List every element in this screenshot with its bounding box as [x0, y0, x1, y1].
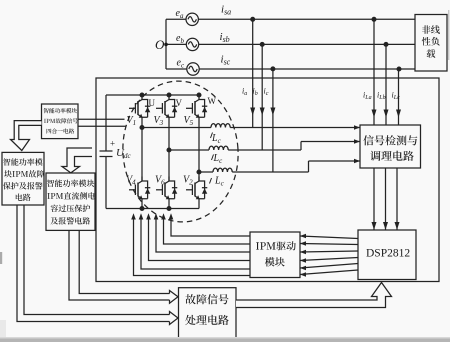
- junction on line c at load-current tap: [397, 67, 401, 71]
- DC overvoltage protection box (box3): [46, 173, 95, 230]
- wire ic tap down to phase-c APF wire: [272, 69, 274, 172]
- wire phase c step up: [308, 161, 310, 172]
- junction top rail leg1: [140, 93, 144, 97]
- wire iLb tap down to signal box: [385, 44, 387, 125]
- junction bottom rail leg1: [140, 207, 144, 211]
- label: IPM故障信号: [44, 119, 46, 123]
- svg-text:ec: ec: [177, 58, 185, 70]
- svg-text:Lc: Lc: [214, 176, 225, 188]
- svg-text:W: W: [208, 96, 217, 106]
- svg-text:V2: V2: [183, 175, 193, 187]
- hollow arrow fault box to DSP: [236, 283, 392, 308]
- svg-text:V1: V1: [127, 115, 137, 127]
- label: 四合一电路: [47, 129, 52, 134]
- wire ia tap down to phase-a APF wire: [252, 19, 254, 127]
- wire gate drive 1 (leftmost): [134, 216, 251, 276]
- signal detection box: [360, 125, 421, 168]
- wire gate drive 4: [156, 216, 250, 252]
- fault signal processing box: [179, 288, 237, 338]
- svg-text:iLa: iLa: [363, 91, 372, 102]
- capacitor Udc plates: [100, 150, 113, 152]
- label: 模块: [265, 257, 275, 266]
- wire DSP to IPM drive pwm2: [300, 244, 358, 245]
- node O (neutral bus): [165, 19, 167, 69]
- svg-text:DSP2812: DSP2812: [366, 248, 410, 260]
- hollow arrowhead box3 lines to fault box: [170, 291, 179, 304]
- scan artifacts: bottom gray band: [0, 339, 450, 342]
- wire DSP to IPM drive pwm1: [300, 236, 358, 239]
- transistor V1: [129, 95, 150, 118]
- label: 保护及报警: [3, 182, 11, 189]
- svg-text:iLb: iLb: [377, 91, 386, 102]
- wire signal box output a to DSP: [373, 168, 375, 230]
- label: 处理电路: [185, 315, 195, 325]
- label: 性负: [422, 37, 431, 46]
- wire phase b: leg2 to inductor: [169, 149, 209, 151]
- wire gate drive 3: [149, 216, 251, 261]
- wire leg3 mid: [198, 117, 200, 181]
- inductor Lc phase c: [213, 168, 232, 172]
- wire fault bus from IPM to box1 (lower): [78, 125, 127, 127]
- svg-text:ic: ic: [264, 87, 269, 98]
- DC bus bottom rail: [106, 208, 199, 210]
- wire line c (isc) to load: [199, 68, 415, 70]
- wire box3 fault line 1: [69, 230, 170, 300]
- svg-text:U: U: [149, 98, 156, 108]
- label: 电路: [16, 194, 23, 201]
- transistor V6: [156, 177, 177, 200]
- label: 调理电路: [370, 151, 380, 161]
- junction phase node c: [197, 170, 201, 174]
- hollow arrowhead box2 lines to fault box: [170, 312, 179, 325]
- label: 智能功率模块: [47, 180, 54, 187]
- svg-text:Lc: Lc: [211, 133, 222, 145]
- junction on line a at APF tap: [251, 17, 255, 21]
- svg-text:ea: ea: [176, 8, 184, 20]
- svg-text:Lc: Lc: [213, 153, 224, 165]
- IPM drive module box: [250, 232, 300, 278]
- junction top rail leg3: [197, 93, 201, 97]
- wire phase b step up: [300, 142, 302, 151]
- transistor V5: [186, 95, 207, 118]
- transistor V4: [129, 177, 150, 200]
- wire DSP to IPM drive pwm6: [300, 270, 358, 275]
- wire phase b from bus to source eb: [166, 43, 186, 45]
- label: 块IPM故障: [4, 170, 12, 177]
- wire phase c: inductor to step: [232, 171, 308, 173]
- label: 信号检测与: [363, 135, 373, 145]
- svg-text:V: V: [176, 98, 183, 108]
- wire ib tap down to phase-b APF wire: [261, 44, 263, 150]
- svg-text:+: +: [110, 139, 115, 149]
- svg-text:V3: V3: [154, 115, 164, 127]
- wire DSP to IPM drive pwm4: [300, 258, 358, 261]
- source eb: [186, 38, 198, 50]
- DC bus left vertical upper: [105, 95, 107, 151]
- svg-text:isb: isb: [220, 31, 230, 44]
- label: 及报警电路: [51, 217, 59, 224]
- svg-text:isa: isa: [221, 4, 231, 17]
- fault box 1 (four-in-one): [42, 104, 79, 139]
- wire phase a from bus to source ea: [166, 18, 186, 20]
- DC bus left vertical lower: [105, 157, 107, 209]
- transistor V3: [156, 95, 177, 118]
- transistor V2: [186, 177, 207, 200]
- svg-text:V5: V5: [184, 115, 194, 127]
- source ec: [187, 63, 199, 75]
- wire phase b: inductor to step: [228, 149, 301, 151]
- IPM protection box (box2): [2, 152, 44, 205]
- lead tick Lc c: [210, 178, 212, 184]
- wire DSP to IPM drive pwm5: [300, 264, 358, 269]
- wire signal box output c to DSP: [396, 168, 398, 230]
- wire gate drive 6 (rightmost): [171, 216, 250, 236]
- svg-text:eb: eb: [176, 33, 184, 45]
- inductor Lc phase a: [211, 124, 230, 128]
- source ea: [186, 13, 198, 25]
- junction on line c at APF tap: [271, 67, 275, 71]
- label: 智能功率模块: [44, 108, 49, 113]
- wire leg2 mid: [168, 117, 170, 181]
- label: 载: [427, 49, 436, 58]
- APF enclosure border: [96, 78, 439, 282]
- wire DSP to IPM drive pwm3: [300, 251, 358, 252]
- wire phase c: leg3 to inductor: [199, 171, 213, 173]
- svg-text:O: O: [155, 37, 165, 52]
- junction bottom rail leg2: [167, 207, 171, 211]
- svg-text:V4: V4: [126, 175, 136, 187]
- nonlinear load box: [415, 15, 447, 72]
- junction at O: [164, 43, 168, 47]
- wire gate drive 5: [164, 216, 251, 244]
- hollow arrow from DC link to box3: [62, 148, 92, 173]
- label: 故障信号: [185, 294, 195, 304]
- wire box2 fault line 2: [24, 205, 170, 315]
- wire phase b: step to signal box: [301, 141, 360, 143]
- lead tick Lc b: [212, 155, 214, 161]
- label: 容过压保护: [51, 205, 59, 212]
- wire box2 fault line 1: [17, 205, 170, 322]
- wire line a (isa) to load: [198, 18, 415, 20]
- text labels (latin, italic serif): [110, 4, 410, 260]
- wire fault bus from IPM to box1 (upper): [78, 118, 125, 120]
- junction top rail leg2: [167, 93, 171, 97]
- label: 智能功率模: [3, 158, 10, 165]
- svg-text:isc: isc: [221, 54, 231, 67]
- junction on line b at APF tap: [260, 43, 264, 47]
- svg-text:Udc: Udc: [116, 147, 131, 160]
- scan artifacts: [448, 10, 450, 60]
- wire phase c: step to signal box: [309, 160, 361, 162]
- wire V6 emitter to bottom rail: [168, 199, 170, 209]
- wire phase a: inductor to signal box: [230, 127, 360, 129]
- junction on line a at load-current tap: [372, 17, 376, 21]
- lead tick Lc a: [211, 133, 213, 139]
- svg-text:ia: ia: [242, 87, 247, 98]
- wire signal box output b to DSP: [385, 168, 387, 230]
- label: IPM驱动: [256, 242, 259, 249]
- wire line b (isb) to load: [199, 43, 415, 45]
- wire V2 emitter to bottom rail: [198, 199, 200, 209]
- label: IPM直流侧电: [47, 193, 49, 199]
- hollow arrow box1 to box2: [11, 121, 42, 151]
- label: 非线: [422, 25, 431, 34]
- junction phase node b: [167, 148, 171, 152]
- wire V4 emitter to bottom rail: [141, 199, 143, 209]
- wire phase c from bus to source ec: [166, 68, 187, 70]
- wire iLa tap down to signal box: [373, 19, 375, 125]
- svg-text:V6: V6: [155, 175, 165, 187]
- IPM module dashed ellipse: [117, 76, 244, 226]
- junction phase node a: [140, 126, 144, 130]
- svg-text:ib: ib: [253, 87, 258, 98]
- inductor Lc phase b: [209, 146, 228, 150]
- junction on line b at load-current tap: [384, 43, 388, 47]
- wire leg1 mid: [141, 117, 143, 181]
- wire iLc tap down to signal box: [398, 69, 400, 125]
- wire phase a: leg1 to inductor: [142, 127, 211, 129]
- wire box3 fault line 2: [79, 230, 169, 293]
- wire gate drive 2: [141, 216, 250, 269]
- DSP2812 box: [358, 230, 416, 280]
- DC bus top rail: [106, 94, 199, 96]
